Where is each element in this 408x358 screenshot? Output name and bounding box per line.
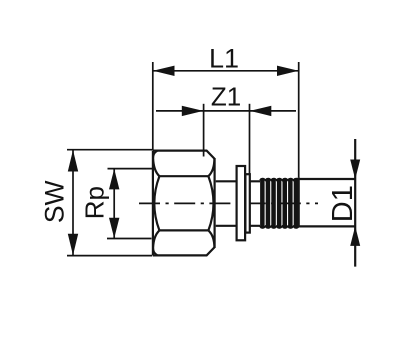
neck between nut and flange <box>216 181 236 226</box>
dimension Z1 <box>156 82 296 175</box>
svg-text:SW: SW <box>40 180 70 223</box>
centerline <box>139 202 318 204</box>
flange (large collar disc) <box>237 166 246 240</box>
dimension L1 <box>153 43 299 177</box>
rib end face <box>298 177 300 227</box>
svg-text:Rp: Rp <box>79 186 109 219</box>
dimension D1 <box>327 139 360 267</box>
dimension Rp <box>79 169 152 239</box>
svg-text:L1: L1 <box>209 43 239 73</box>
svg-text:Z1: Z1 <box>211 82 241 112</box>
dimension SW <box>40 150 153 256</box>
hex nut (union nut, left body) <box>153 151 215 256</box>
svg-text:D1: D1 <box>327 185 359 222</box>
small collar disc behind flange <box>245 174 249 232</box>
ribbed press-fit end <box>260 178 299 229</box>
neck between flange and ribs <box>250 181 260 226</box>
pipe section on press end <box>299 179 356 226</box>
